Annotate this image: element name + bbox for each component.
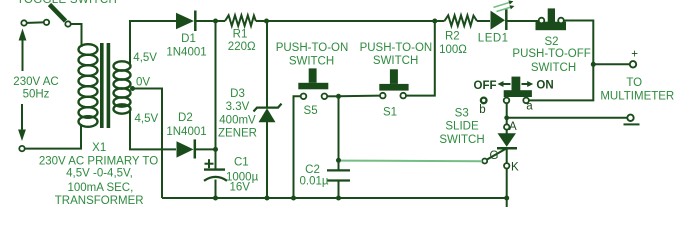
svg-text:+: + [631,49,638,61]
plus terminal [630,61,636,67]
0V label [136,77,150,89]
S2 label block [512,36,590,74]
node 0V centre tap [130,86,135,91]
AC input lower arrow [18,104,26,141]
wire S5 right to node [327,95,338,97]
svg-text:4,5V -0-4,5V,: 4,5V -0-4,5V, [66,168,133,180]
svg-text:D1: D1 [181,33,196,45]
node C2 gate junction [336,158,341,163]
svg-text:400mV: 400mV [219,114,256,126]
wire node to S1 [339,95,381,98]
AC input upper arrow [19,29,27,72]
svg-text:SWITCH: SWITCH [289,56,334,68]
230V AC label [13,76,58,88]
SCR cathode terminal K [504,163,509,168]
svg-text:SLIDE: SLIDE [445,121,479,133]
TO MULTIMETER label [600,77,674,103]
wire R1 to node [256,20,266,22]
svg-text:PUSH-TO-OFF: PUSH-TO-OFF [512,48,590,60]
wire S5 left to ground [294,96,301,198]
svg-text:1N4001: 1N4001 [166,47,206,59]
svg-text:MULTIMETER: MULTIMETER [600,91,674,103]
S1 label [383,106,397,118]
svg-text:TRANSFORMER: TRANSFORMER [55,195,144,207]
transformer core [100,43,110,128]
a label [526,101,533,113]
svg-text:220Ω: 220Ω [228,41,256,53]
wire secondary bottom to D2 [130,111,176,149]
svg-text:3.3V: 3.3V [226,101,250,113]
diode D1 [176,11,216,32]
svg-text:C2: C2 [305,164,320,176]
gate wire light green [341,160,482,163]
wire junction to R1 [216,20,226,22]
push-to-on switch label 2 [360,42,433,67]
capacitor C2 [327,170,350,198]
svg-text:D3: D3 [230,88,245,100]
svg-text:4,5V: 4,5V [135,113,159,125]
svg-text:S5: S5 [304,105,318,117]
ON arrow [522,81,534,87]
wire R2 to LED [477,20,490,22]
node SCR anode junction [504,115,509,120]
svg-text:D2: D2 [178,112,193,124]
OFF arrow [498,81,511,87]
plus sign multimeter [631,49,638,61]
SCR1 thyristor [497,130,517,163]
svg-text:X1: X1 [92,142,106,154]
svg-text:SWITCH: SWITCH [531,62,576,74]
gate terminal circle [482,159,487,164]
K label [511,161,519,173]
node S1 rail junction [432,19,437,24]
transformer X1 secondary coil [114,61,131,113]
svg-text:230V AC PRIMARY TO: 230V AC PRIMARY TO [39,155,158,167]
A label [509,121,517,133]
toggle switch lever [50,5,66,22]
capacitor C1 [204,149,227,198]
S5 left contact [301,94,307,100]
S5 label [304,105,318,117]
wire LED to S2 [506,20,538,22]
wire D1 junction down to D2 junction [215,21,217,149]
S2 left contact [539,18,545,24]
capacitor C1 plus sign [205,159,214,168]
wire S3 common down to anode node [506,103,508,124]
transformer X1 primary coil [79,44,98,127]
D3 label block [218,88,257,140]
S3 contact a [523,98,529,104]
S2 right contact [558,18,564,24]
svg-text:100Ω: 100Ω [439,44,467,56]
LED1 emission arrows [494,0,515,11]
R1 label [228,28,256,53]
svg-text:50Hz: 50Hz [23,89,50,101]
SCR anode terminal A [504,124,509,129]
toggle switch middle contact [44,20,49,25]
wire anode node to minus terminal [507,117,628,119]
top rail to S1 riser and R2 [266,20,444,22]
zener diode D3 [254,104,282,198]
svg-text:ZENER: ZENER [218,128,257,140]
svg-text:C1: C1 [234,157,249,169]
wire S1 right up to rail [406,21,435,96]
C2 label [299,164,328,188]
S3 contact b [481,98,487,104]
resistor R2 [444,15,477,25]
push button S2 (push-to-off) [536,8,567,30]
wire node to zener D3 [266,21,268,107]
svg-text:4,5V: 4,5V [133,52,157,64]
slide switch S3 knob [504,77,532,97]
wire S2 to right corner [564,21,594,65]
node R1 right junction [264,19,269,24]
svg-text:S3: S3 [455,107,469,119]
node zener ground [265,196,270,201]
wire centre tap to ground rail [133,89,163,199]
wire lower terminal to primary bottom [25,124,81,149]
svg-text:230V AC: 230V AC [13,76,58,88]
svg-text:LED1: LED1 [478,33,509,45]
wire toggle to primary top [71,24,82,47]
svg-text:S2: S2 [544,36,558,48]
node D2/C1 junction [213,147,218,152]
S3 common contact [504,98,510,104]
svg-text:1N4001: 1N4001 [166,126,206,138]
wire secondary top to rail [130,21,176,64]
svg-text:ON: ON [536,80,553,92]
toggle switch right contact [65,21,70,26]
node C2 ground [336,196,341,201]
svg-text:b: b [479,104,485,116]
node SCR ground [504,196,509,201]
svg-text:K: K [511,161,519,173]
S1 right contact [400,93,406,99]
G label [490,150,499,162]
S3 label block [439,107,484,145]
AC input lower terminal [19,146,24,151]
svg-text:G: G [490,150,499,162]
S1 left contact [380,93,386,99]
b label [479,104,485,116]
svg-text:TOGGLE SWITCH: TOGGLE SWITCH [17,0,117,6]
svg-text:16V: 16V [230,182,251,194]
S5 right contact [322,94,328,100]
svg-text:SWITCH: SWITCH [439,134,484,146]
toggle switch label [17,0,117,6]
ground rail [162,197,507,199]
LED1 [491,9,507,30]
svg-text:S1: S1 [383,106,397,118]
svg-text:R2: R2 [445,31,460,43]
50Hz label [23,89,50,101]
ON label [536,80,553,92]
node C1 ground [213,196,218,201]
4.5V top label [133,52,157,64]
LED1 label [478,33,509,45]
OFF label [474,80,497,92]
wire cathode down [506,168,508,207]
diode D2 [177,139,216,158]
push button S5 [298,68,328,89]
D1 label [166,33,206,59]
SCR gate lead [486,148,506,160]
svg-text:SWITCH: SWITCH [373,55,418,67]
svg-text:0.01µ: 0.01µ [299,176,328,188]
wire node to plus terminal [593,63,630,65]
X1 label block [39,142,158,207]
svg-text:PUSH-TO-ON: PUSH-TO-ON [276,42,349,54]
toggle switch terminal wire [24,21,46,24]
push-to-on switch label 1 [276,42,349,68]
toggle switch left terminal [21,20,26,25]
node multimeter plus junction [591,62,596,67]
R2 label [439,31,467,57]
node D1/R1 junction [213,19,218,24]
node S5/S1/C2 junction [336,94,341,99]
svg-text:100mA SEC,: 100mA SEC, [67,182,133,194]
4.5V bottom label [135,113,159,125]
wire right corner down to contact a [529,64,593,100]
minus sign [624,123,640,125]
C2 branch wire [338,96,340,170]
push button S1 [379,69,408,90]
minus terminal [627,115,633,121]
node S5 ground [291,196,296,201]
svg-text:OFF: OFF [474,80,497,92]
svg-text:PUSH-TO-ON: PUSH-TO-ON [360,42,433,54]
svg-text:TO: TO [626,77,642,89]
svg-text:R1: R1 [233,28,248,40]
D2 label [166,112,206,138]
svg-text:A: A [509,121,517,133]
C1 label [226,157,259,194]
svg-text:0V: 0V [136,77,150,89]
svg-text:a: a [526,101,533,113]
resistor R1 [225,15,256,25]
